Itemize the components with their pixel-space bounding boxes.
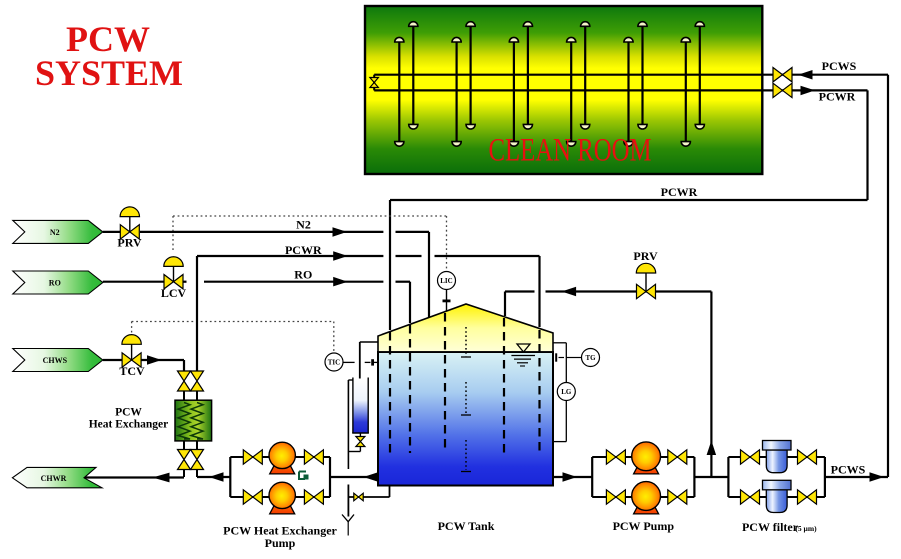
svg-text:CLEAN ROOM: CLEAN ROOM bbox=[489, 133, 652, 169]
valve PCW pump 1 discharge bbox=[668, 450, 687, 464]
pipe filter bottom branch bbox=[728, 496, 825, 498]
svg-text:CHWS: CHWS bbox=[43, 356, 68, 365]
banner CHWR outlet bbox=[12, 467, 102, 487]
valve HX pump 2 discharge bbox=[304, 490, 323, 504]
sight glass drain stub bbox=[359, 433, 361, 437]
sight glass drain stub 2 bbox=[359, 446, 361, 451]
tank waterline bbox=[378, 351, 553, 353]
valve PRV (N2 regulator) bbox=[120, 225, 139, 239]
svg-text:SYSTEM: SYSTEM bbox=[35, 53, 183, 93]
isolation valve HX top right bbox=[191, 371, 204, 391]
svg-text:PCWS: PCWS bbox=[822, 59, 857, 73]
TG connection dash bbox=[559, 357, 565, 359]
flow arrow into clean room (PCWS) bbox=[798, 70, 813, 80]
gauge bracket bottom stub bbox=[553, 441, 566, 443]
pipe CHWS run bbox=[141, 359, 184, 361]
flow arrow out of clean room (PCWR) bbox=[801, 86, 816, 96]
tank drain drop bbox=[389, 486, 391, 498]
small green logo icon bbox=[299, 472, 305, 480]
pipe relief drop into tank bbox=[504, 292, 506, 317]
PRV stem bbox=[645, 271, 647, 292]
svg-text:RO: RO bbox=[49, 279, 61, 288]
signal line drop to LCV bbox=[172, 216, 174, 253]
svg-text:PCW filter: PCW filter bbox=[742, 520, 799, 534]
pipe pump to tank outlet bbox=[330, 476, 378, 478]
pipe PCWR return run bbox=[390, 199, 868, 201]
pipe PCW pump right manifold bbox=[693, 457, 695, 497]
pipe stub bbox=[183, 391, 185, 400]
clean room tool drop 4 bbox=[567, 22, 590, 147]
pump PCW HX pump 1 bbox=[269, 442, 295, 474]
instrument TG bbox=[582, 349, 600, 367]
pipe PCW pump top branch bbox=[592, 456, 694, 458]
tank drain horizontal bbox=[348, 496, 389, 498]
svg-text:LCV: LCV bbox=[161, 286, 187, 300]
pump PCW pump 1 bbox=[632, 442, 661, 474]
flow arrow N2 bbox=[333, 227, 348, 237]
pipe filter left manifold bbox=[727, 457, 729, 497]
signal line LIC to LCV (horizontal) bbox=[173, 215, 447, 217]
isolation valve HX top left bbox=[178, 371, 191, 391]
drain funnel bbox=[342, 515, 354, 522]
banner RO inlet bbox=[13, 271, 103, 294]
drain line upper bbox=[347, 380, 349, 469]
banner N2 inlet bbox=[13, 220, 103, 243]
signal line drop to TCV bbox=[131, 322, 133, 335]
TCV stem bbox=[131, 343, 133, 360]
sight glass left top connection bbox=[348, 379, 353, 381]
gauge bracket standpipe bbox=[565, 343, 567, 442]
pipe PCWR drop into tank bbox=[538, 256, 540, 327]
pipe RO stub bbox=[183, 281, 187, 283]
gauge bracket top stub bbox=[553, 342, 566, 344]
valve PCW pump 2 suction bbox=[606, 490, 625, 504]
sight glass bottom bbox=[352, 432, 369, 434]
tank internal pipe (PCWR) bbox=[389, 332, 391, 453]
tank internal pipe (N2) bbox=[444, 313, 446, 453]
LCV actuator dome bbox=[164, 257, 183, 267]
flow arrow to PCW pump bbox=[563, 472, 578, 482]
pipe HX pump top branch bbox=[230, 456, 330, 458]
pipe HX pump left manifold bbox=[229, 457, 231, 497]
pipe N2 run bbox=[140, 231, 383, 233]
pump PCW pump 2 bbox=[632, 482, 661, 514]
valve HX pump 2 suction bbox=[243, 490, 262, 504]
svg-text:PCWR: PCWR bbox=[285, 243, 322, 257]
tank dip tube dotted segment 1 bbox=[465, 327, 467, 357]
svg-text:(5 µm): (5 µm) bbox=[795, 524, 817, 533]
funnel stem bbox=[347, 522, 349, 536]
pipe PCWR drop bbox=[866, 90, 868, 200]
LCV stem bbox=[173, 265, 175, 282]
svg-text:TCV: TCV bbox=[119, 364, 145, 378]
instrument TIC bbox=[325, 353, 343, 371]
pipe filter right manifold bbox=[824, 457, 826, 497]
pipe HX pump bottom branch bbox=[230, 496, 330, 498]
svg-text:Pump: Pump bbox=[265, 536, 296, 550]
clean room tool drop 6 bbox=[681, 22, 704, 147]
pipe N2 from banner bbox=[103, 231, 120, 233]
pipe PCWR down into tank bbox=[389, 200, 391, 330]
svg-text:RO: RO bbox=[294, 268, 312, 282]
pipe RO run 2 bbox=[396, 281, 411, 283]
mini valve tank drain bbox=[354, 493, 363, 501]
pipe pump to filter bbox=[694, 476, 728, 478]
TIC connection dash 2 bbox=[365, 361, 371, 363]
svg-text:N2: N2 bbox=[50, 228, 60, 237]
pipe filter to PCWS riser bbox=[825, 476, 888, 478]
valve PCW pump 2 discharge bbox=[668, 490, 687, 504]
pipe stub bbox=[183, 441, 185, 450]
pipe PCWS supply header bbox=[374, 74, 888, 76]
pipe RO from banner bbox=[103, 281, 164, 283]
flow arrow up relief riser bbox=[707, 441, 717, 456]
isolation valve HX bottom right bbox=[191, 450, 204, 470]
flow arrow RO bbox=[333, 277, 348, 287]
dip tube tick 3 bbox=[461, 471, 471, 473]
pipe PCWR from heat exchanger bbox=[197, 255, 383, 257]
svg-text:PCWR: PCWR bbox=[661, 185, 698, 199]
pipe header U-turn bbox=[373, 75, 375, 91]
sight glass left wall bbox=[352, 378, 354, 434]
signal line drop to TIC bbox=[333, 322, 335, 353]
svg-text:PCW Tank: PCW Tank bbox=[438, 519, 495, 533]
pipe PCWR return header bbox=[374, 89, 867, 91]
LIC connection tick bbox=[443, 299, 451, 302]
pipe CHWS from banner bbox=[103, 359, 122, 361]
svg-text:PRV: PRV bbox=[633, 249, 658, 263]
svg-text:PRV: PRV bbox=[117, 236, 142, 250]
pipe HX riser (PCW side) bbox=[196, 256, 198, 372]
valve on PCWS at clean room bbox=[773, 68, 792, 82]
clean room tool drop 1 bbox=[395, 22, 418, 147]
pipe stub bbox=[196, 391, 198, 400]
isolation valve HX bottom left bbox=[178, 450, 191, 470]
svg-text:PCWS: PCWS bbox=[831, 463, 866, 477]
PRV relief actuator dome bbox=[636, 263, 655, 273]
pipe PCWR segment 2 bbox=[435, 255, 540, 257]
pipe PCWS riser (right edge) bbox=[887, 75, 889, 477]
valve filter 1 outlet bbox=[798, 450, 817, 464]
pipe relief run 2 bbox=[505, 290, 535, 292]
TIC connection tick bbox=[371, 359, 374, 365]
drain line lower bbox=[347, 485, 349, 517]
dip tube tick 1 bbox=[461, 356, 471, 358]
TCV actuator dome bbox=[122, 335, 141, 345]
instrument LG bbox=[557, 383, 575, 401]
sight glass right wall bbox=[367, 378, 369, 434]
clean room enclosure bbox=[365, 6, 762, 174]
svg-text:PCW: PCW bbox=[115, 406, 142, 418]
banner CHWS inlet bbox=[13, 349, 103, 372]
pipe relief run bbox=[546, 290, 712, 292]
tank dip tube dotted segment 3 bbox=[465, 440, 467, 470]
svg-text:TIC: TIC bbox=[328, 358, 340, 366]
PCW tank roof bbox=[378, 304, 553, 352]
mini valve on header U-turn bbox=[370, 78, 379, 88]
flow arrow CHWR bbox=[153, 473, 170, 483]
pipe CHWR to banner bbox=[85, 476, 184, 478]
flow arrow into HX bbox=[209, 472, 224, 482]
svg-text:N2: N2 bbox=[296, 217, 311, 231]
svg-text:LG: LG bbox=[561, 388, 572, 396]
pipe PCW pump left manifold bbox=[591, 457, 593, 497]
pipe HX pump right manifold bbox=[329, 457, 331, 497]
clean room tool drop 5 bbox=[624, 22, 647, 146]
PCW tank body bbox=[378, 352, 553, 486]
mini valve sight glass drain bbox=[356, 437, 365, 447]
sight glass drain horizontal bbox=[348, 451, 360, 453]
pipe CHWS drop to HX bbox=[183, 360, 185, 372]
signal line drop to LIC bbox=[446, 216, 448, 271]
pipe HX pump discharge to HX bbox=[197, 476, 230, 478]
svg-text:Heat Exchanger: Heat Exchanger bbox=[89, 419, 169, 431]
valve LCV (level control) bbox=[164, 275, 183, 289]
pipe RO run bbox=[204, 281, 383, 283]
TG connection line bbox=[566, 357, 581, 359]
pipe stub bbox=[183, 470, 185, 478]
valve filter 2 inlet bbox=[741, 490, 760, 504]
pump PCW HX pump 2 bbox=[269, 482, 295, 514]
sight glass body bbox=[353, 379, 368, 434]
pipe PCWR segment bbox=[396, 255, 422, 257]
PRV actuator dome bbox=[120, 207, 139, 217]
tank dip tube dotted segment 2 bbox=[465, 382, 467, 415]
HX coil left bbox=[178, 403, 190, 440]
flow arrow from tank bbox=[364, 472, 379, 482]
sight glass dip line bbox=[359, 342, 361, 421]
PRV stem bbox=[129, 215, 131, 232]
filter cartridge 1 bbox=[763, 441, 792, 473]
pipe N2 run after crossing bbox=[396, 231, 430, 233]
svg-text:PCW Pump: PCW Pump bbox=[613, 519, 675, 533]
valve filter 2 outlet bbox=[798, 490, 817, 504]
valve PRV (relief) bbox=[637, 284, 656, 298]
pipe tank to PCW pump bbox=[553, 476, 592, 478]
clean room tool drop 3 bbox=[509, 22, 532, 147]
dip tube tick 2 bbox=[461, 414, 471, 416]
sight glass top connection bbox=[360, 341, 378, 343]
flow arrow relief to tank bbox=[562, 287, 577, 296]
instrument LIC bbox=[438, 272, 456, 290]
filter cartridge 2 bbox=[763, 480, 792, 512]
tank internal pipe (RO) bbox=[409, 325, 411, 453]
svg-text:TG: TG bbox=[585, 354, 596, 362]
pipe stub bbox=[196, 441, 198, 450]
valve filter 1 inlet bbox=[741, 450, 760, 464]
flow arrow PCWS out bbox=[870, 472, 885, 482]
pipe RO drop into tank bbox=[409, 282, 411, 323]
svg-text:CHWR: CHWR bbox=[41, 474, 67, 483]
pipe filter top branch bbox=[728, 456, 825, 458]
flow arrow CHWS bbox=[147, 355, 162, 365]
signal line TIC to TCV (horizontal) bbox=[132, 321, 334, 323]
pipe relief riser bbox=[710, 292, 712, 478]
LIC connection stem bbox=[446, 290, 448, 312]
pipe PCW pump bottom branch bbox=[592, 496, 694, 498]
pipe stub bbox=[196, 470, 198, 478]
heat exchanger PCW HX body bbox=[175, 400, 212, 441]
valve PCW pump 1 suction bbox=[606, 450, 625, 464]
valve HX pump 1 suction bbox=[243, 450, 262, 464]
tank internal pipe (PRV return) bbox=[503, 318, 505, 453]
pipe N2 drop into tank bbox=[428, 232, 430, 317]
TIC connection stub bbox=[374, 361, 378, 363]
HX coil right bbox=[191, 403, 203, 440]
TG connection tick bbox=[555, 353, 557, 361]
water level symbol bbox=[511, 344, 535, 366]
svg-text:PCWR: PCWR bbox=[819, 90, 856, 104]
svg-text:LIC: LIC bbox=[440, 277, 452, 285]
valve HX pump 1 discharge bbox=[304, 450, 323, 464]
clean room tool drop 2 bbox=[452, 22, 475, 146]
valve TCV (temperature control) bbox=[122, 353, 141, 367]
valve on PCWR at clean room bbox=[773, 83, 792, 97]
tank internal pipe (PCWR from HX) bbox=[538, 330, 540, 453]
flow arrow PCWR bbox=[333, 251, 348, 261]
TIC connection dash bbox=[344, 361, 355, 363]
